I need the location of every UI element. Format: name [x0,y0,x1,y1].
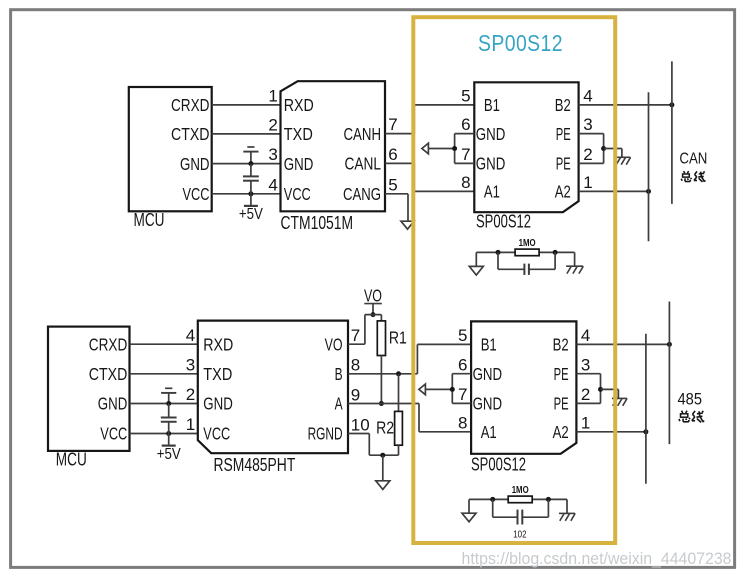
svg-text:GND: GND [473,394,503,414]
svg-text:CTM1051M: CTM1051M [281,213,354,233]
svg-text:7: 7 [461,145,470,164]
svg-text:3: 3 [583,115,592,134]
svg-text:4: 4 [581,326,590,345]
svg-text:7: 7 [458,385,467,404]
svg-text:7: 7 [388,115,397,134]
svg-text:6: 6 [461,115,470,134]
svg-text:GND: GND [473,364,503,384]
svg-text:4: 4 [268,175,277,194]
svg-text:VCC: VCC [284,184,311,204]
svg-text:4: 4 [583,87,592,106]
svg-text:102: 102 [513,528,526,540]
svg-text:SP00S12: SP00S12 [471,455,526,475]
svg-text:R2: R2 [376,418,394,438]
svg-text:MCU: MCU [56,450,87,470]
svg-text:GND: GND [476,154,506,174]
svg-text:6: 6 [458,355,467,374]
svg-text:RXD: RXD [284,95,314,115]
svg-text:VCC: VCC [203,424,230,444]
svg-text:7: 7 [351,326,360,345]
svg-text:A1: A1 [484,182,500,202]
svg-text:+5V: +5V [239,206,263,223]
svg-text:3: 3 [268,145,277,164]
svg-text:GND: GND [98,394,128,414]
svg-text:PE: PE [556,154,571,174]
svg-text:5: 5 [388,175,397,194]
svg-text:PE: PE [554,364,569,384]
svg-text:PE: PE [554,394,569,414]
svg-text:B: B [335,364,343,384]
svg-text:10: 10 [351,415,370,434]
svg-text:RXD: RXD [203,334,233,354]
svg-text:TXD: TXD [203,364,232,384]
svg-text:1: 1 [581,413,590,432]
svg-text:VO: VO [325,334,343,354]
svg-text:R1: R1 [389,327,407,347]
svg-text:SP00S12: SP00S12 [478,30,563,56]
svg-text:3: 3 [186,355,195,374]
svg-text:A2: A2 [553,422,569,442]
svg-text:GND: GND [203,394,233,414]
svg-text:1: 1 [186,415,195,434]
svg-text:CANH: CANH [344,124,382,144]
svg-text:RGND: RGND [308,424,343,444]
svg-text:https://blog.csdn.net/weixin_4: https://blog.csdn.net/weixin_44407238 [462,550,732,568]
svg-text:B1: B1 [484,95,500,115]
svg-text:PE: PE [556,124,571,144]
svg-text:5: 5 [461,87,470,106]
svg-text:1: 1 [583,173,592,192]
svg-text:A2: A2 [555,182,571,202]
svg-text:+5V: +5V [157,446,181,463]
svg-text:B2: B2 [553,335,569,355]
svg-text:VCC: VCC [183,184,210,204]
svg-text:CRXD: CRXD [89,334,128,354]
svg-text:1: 1 [268,87,277,106]
svg-text:B2: B2 [555,95,571,115]
svg-text:2: 2 [581,385,590,404]
svg-text:485: 485 [678,390,703,408]
svg-text:RSM485PHT: RSM485PHT [214,455,296,475]
svg-text:VO: VO [364,285,382,305]
svg-text:CANL: CANL [345,154,382,174]
svg-text:3: 3 [581,355,590,374]
svg-text:1MO: 1MO [512,484,529,496]
svg-text:9: 9 [351,385,360,404]
svg-text:MCU: MCU [134,210,165,230]
svg-text:2: 2 [186,385,195,404]
svg-text:GND: GND [180,154,210,174]
svg-text:CRXD: CRXD [171,95,210,115]
svg-text:B1: B1 [481,335,497,355]
svg-text:GND: GND [476,124,506,144]
svg-text:4: 4 [186,326,195,345]
svg-text:6: 6 [388,145,397,164]
svg-text:CAN: CAN [679,151,707,168]
svg-text:8: 8 [351,356,360,375]
svg-text:VCC: VCC [100,424,127,444]
svg-text:5: 5 [458,326,467,345]
svg-text:TXD: TXD [284,124,313,144]
svg-text:8: 8 [458,413,467,432]
svg-text:A: A [335,394,343,414]
svg-text:CTXD: CTXD [89,364,128,384]
svg-text:2: 2 [268,116,277,135]
svg-text:GND: GND [284,154,314,174]
svg-text:2: 2 [583,145,592,164]
svg-text:A1: A1 [481,422,497,442]
svg-text:1MO: 1MO [519,237,536,249]
svg-text:CTXD: CTXD [171,124,210,144]
svg-text:8: 8 [461,173,470,192]
svg-text:SP00S12: SP00S12 [476,212,531,232]
svg-text:CANG: CANG [343,184,381,204]
